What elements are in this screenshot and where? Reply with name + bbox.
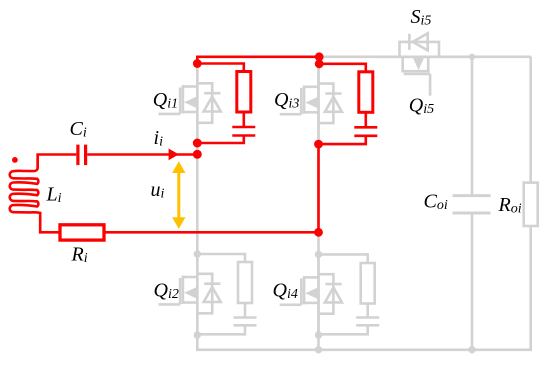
inductor polarity dot — [12, 157, 18, 163]
gray left leg wire — [196, 64, 199, 336]
snubber resistor of Q_i4 — [319, 254, 375, 317]
node drain Q_i2 — [194, 250, 201, 257]
node mid left lower — [193, 150, 202, 159]
current arrow i_i — [169, 149, 179, 161]
node drain Q_i4 — [315, 251, 322, 258]
node mid left upper — [193, 139, 202, 148]
transistor Q_i4 — [280, 254, 342, 334]
transistor Q_i2 — [159, 254, 221, 334]
node rail right leg — [315, 346, 322, 353]
wire C_i to inductor — [38, 155, 77, 168]
bottom red wire — [104, 231, 319, 234]
snubber resistor of Q_i1 (red) — [197, 64, 251, 128]
transistor Q_i3 — [280, 64, 342, 144]
node source Q_i4 — [315, 331, 322, 338]
snubber resistor of Q_i2 — [197, 254, 252, 318]
wire C_oi top leg — [471, 57, 474, 196]
node rail C_oi — [468, 346, 475, 353]
node source Q_i2 — [194, 331, 201, 338]
node C_oi top — [469, 54, 475, 60]
node mid right — [314, 140, 323, 149]
wire R_oi top leg — [529, 57, 532, 183]
resistor R_oi — [524, 183, 538, 226]
wire C_oi bottom leg — [471, 213, 474, 350]
gray top bus wire — [319, 55, 531, 58]
red right leg wire segment — [317, 144, 320, 232]
resistor R_i — [60, 225, 104, 240]
node top left — [193, 59, 202, 68]
snubber capacitor of Q_i3 (red) — [319, 127, 378, 144]
snubber capacitor of Q_i4 — [319, 318, 380, 335]
gray bottom rail wire — [197, 226, 530, 350]
snubber resistor of Q_i3 (red) — [319, 64, 373, 128]
node top right upper — [315, 52, 324, 61]
node top right lower — [315, 59, 324, 68]
inductor L_i — [10, 155, 60, 233]
transistor Q_i1 — [159, 64, 221, 144]
capacitor C_i — [78, 145, 86, 166]
input wire with C_i — [87, 153, 197, 156]
node bottom right of red loop — [314, 228, 323, 237]
capacitor C_oi — [453, 196, 491, 213]
red top bus wire — [197, 57, 319, 64]
voltage arrow u_i — [172, 161, 185, 229]
gray right leg wire — [317, 57, 320, 350]
snubber capacitor of Q_i1 (red) — [197, 127, 255, 143]
snubber capacitor of Q_i2 — [197, 318, 256, 335]
transistor Q_i5 with diode S_i5 — [380, 33, 460, 95]
